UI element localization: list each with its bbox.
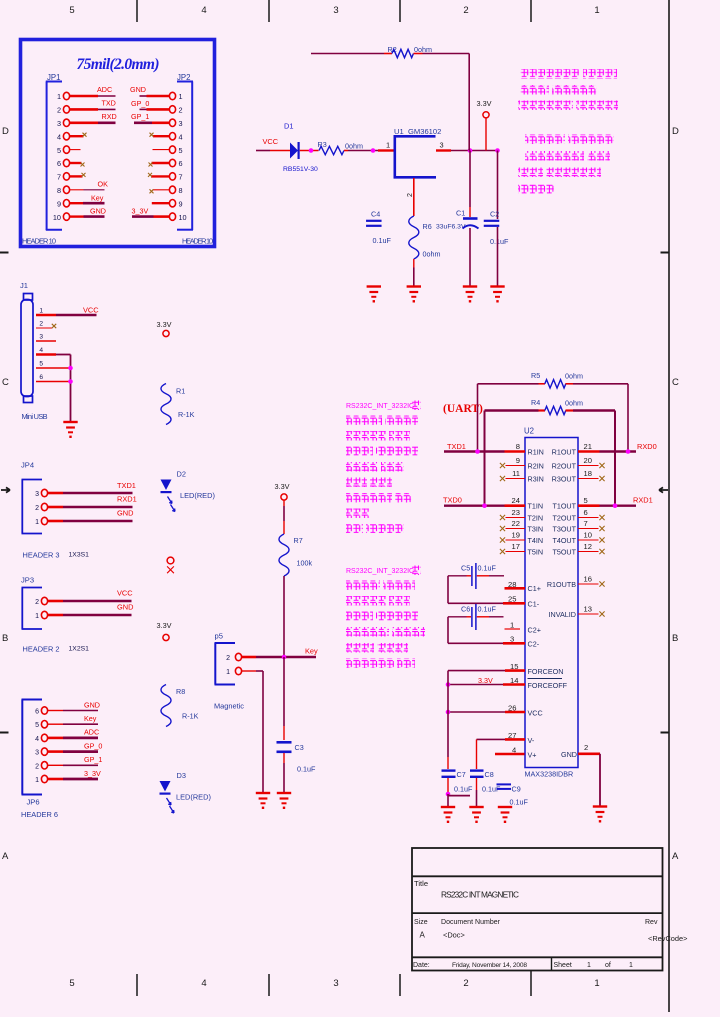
svg-text:D2: D2: [177, 470, 186, 479]
U1 pin2 wire down: [407, 178, 414, 216]
svg-text:2: 2: [35, 505, 39, 512]
svg-text:1: 1: [35, 613, 39, 620]
svg-text:C2-: C2-: [528, 640, 540, 649]
wire T1OUT to RXD1: [600, 496, 653, 506]
svg-text:C1-: C1-: [528, 600, 540, 609]
svg-text:GP_0: GP_0: [84, 741, 102, 750]
connector JP6 HEADER 6: [21, 700, 58, 820]
svg-text:GND: GND: [90, 207, 106, 216]
blue outline box 75mil: [21, 40, 215, 247]
svg-text:of: of: [605, 962, 611, 969]
svg-text:1: 1: [35, 519, 39, 526]
wire R4 left leg: [484, 411, 486, 506]
svg-text:GND: GND: [84, 700, 100, 709]
korean note block 2: [518, 135, 614, 194]
svg-text:8: 8: [57, 186, 61, 195]
power symbol 3.3V output: [477, 99, 492, 118]
svg-text:RS232C_INT_3232IC: RS232C_INT_3232IC: [346, 403, 414, 410]
svg-text:TXD0: TXD0: [443, 496, 462, 505]
resistor R8 R-1K: [161, 685, 199, 727]
svg-text:22: 22: [512, 519, 520, 528]
svg-text:5: 5: [179, 146, 183, 155]
capacitor C6 0.1uF: [448, 604, 504, 630]
JP3 pin wires: [48, 601, 132, 615]
svg-text:3: 3: [179, 119, 183, 128]
svg-text:4: 4: [57, 132, 61, 141]
svg-text:3: 3: [39, 334, 43, 341]
svg-text:24: 24: [512, 496, 520, 505]
svg-text:HEADER 10: HEADER 10: [22, 237, 56, 246]
svg-text:C1: C1: [456, 209, 465, 218]
svg-text:Date:: Date:: [413, 962, 430, 969]
U2 left no-connect marks: [500, 463, 505, 554]
off-page arrow left: [1, 487, 10, 492]
JP3 net labels: [117, 589, 133, 612]
wire R5 right leg: [627, 384, 629, 452]
JP6 net labels: [84, 700, 102, 778]
korean note block 3: [346, 416, 418, 534]
border zone letters right: [672, 126, 679, 862]
ground below C4: [367, 287, 381, 303]
svg-text:R5: R5: [531, 371, 540, 380]
svg-text:JP3: JP3: [21, 576, 34, 585]
wire C7 stub right: [448, 795, 470, 797]
junction RXD0: [626, 449, 631, 454]
svg-text:2: 2: [57, 106, 61, 115]
svg-text:D: D: [672, 126, 679, 137]
wire R3 to U1 pin1: [348, 150, 394, 152]
svg-text:3: 3: [35, 491, 39, 498]
svg-text:2: 2: [463, 5, 468, 16]
svg-text:U1: U1: [394, 127, 404, 136]
svg-text:RXD: RXD: [102, 112, 117, 121]
ground below J1: [63, 422, 77, 438]
svg-text:1: 1: [594, 5, 599, 16]
connector J1 Mini USB: [20, 281, 48, 421]
wire FORCEOFF 3.3V: [448, 676, 568, 690]
capacitor C8 0.1uF: [470, 739, 494, 806]
svg-text:7: 7: [584, 519, 588, 528]
svg-text:5: 5: [69, 978, 74, 989]
svg-text:2: 2: [39, 321, 43, 328]
svg-text:Sheet: Sheet: [554, 962, 572, 969]
J1 junction pin6: [68, 379, 73, 384]
svg-text:T4IN: T4IN: [528, 536, 544, 545]
svg-text:RS232C_INT_3232IC: RS232C_INT_3232IC: [346, 568, 414, 575]
svg-text:20: 20: [584, 456, 592, 465]
svg-text:R1: R1: [176, 387, 185, 396]
resistor R6 0ohm: [409, 216, 441, 286]
svg-text:23: 23: [512, 508, 520, 517]
svg-text:8: 8: [179, 186, 183, 195]
svg-text:4: 4: [201, 978, 206, 989]
svg-text:R4: R4: [531, 398, 540, 407]
resistor R5 0ohm uart: [478, 371, 629, 388]
svg-text:HEADER 10: HEADER 10: [182, 237, 213, 246]
svg-text:J1: J1: [20, 281, 28, 290]
svg-text:R2IN: R2IN: [528, 462, 544, 471]
off-page arrow right: [659, 487, 668, 492]
junction output C2: [495, 148, 500, 153]
wire 3.3V to R7: [283, 500, 285, 534]
svg-text:OK: OK: [98, 180, 109, 189]
svg-text:TXD: TXD: [102, 99, 116, 108]
svg-text:1: 1: [629, 962, 633, 969]
svg-text:B: B: [672, 633, 678, 644]
svg-text:R6: R6: [423, 222, 432, 231]
JP1 no-connect slashes: [81, 133, 87, 177]
svg-text:3.3V: 3.3V: [157, 320, 172, 329]
svg-text:V+: V+: [528, 751, 537, 760]
wire p5 pin2 to key node: [242, 656, 316, 659]
svg-text:MAX3238IDBR: MAX3238IDBR: [525, 770, 574, 779]
svg-text:3: 3: [510, 635, 514, 644]
ground below C2: [490, 287, 504, 303]
connector JP3 HEADER 2: [21, 576, 89, 654]
svg-text:Size: Size: [414, 919, 428, 926]
wire TXD0 to U2: [443, 496, 505, 506]
svg-text:U2: U2: [524, 427, 534, 436]
svg-text:4: 4: [201, 5, 206, 16]
JP1 net labels: [90, 85, 117, 216]
svg-text:C5: C5: [461, 564, 470, 573]
capacitor C1 33uF 6.3V: [436, 151, 479, 287]
svg-text:0.1uF: 0.1uF: [510, 798, 529, 807]
svg-text:1: 1: [179, 92, 183, 101]
resistor R7 100k: [279, 534, 313, 576]
title block texts: [413, 879, 687, 969]
svg-text:10: 10: [584, 531, 592, 540]
svg-text:1: 1: [587, 962, 591, 969]
svg-text:T3IN: T3IN: [528, 525, 544, 534]
svg-text:A: A: [420, 931, 426, 940]
svg-text:1X2S1: 1X2S1: [69, 646, 90, 653]
junction key node: [282, 655, 287, 660]
resistor R3 0ohm: [318, 140, 363, 155]
korean note block 4: [346, 581, 425, 669]
U2 pin1 stub: [505, 621, 541, 635]
svg-text:T3OUT: T3OUT: [552, 525, 576, 534]
svg-text:FORCEON: FORCEON: [528, 667, 564, 676]
svg-text:TXD1: TXD1: [117, 481, 136, 490]
junction below C7: [446, 792, 451, 797]
diode D1 RB551V-30: [283, 122, 318, 174]
svg-text:1: 1: [35, 777, 39, 784]
svg-text:LED(RED): LED(RED): [180, 491, 215, 500]
wire 3.3V stub: [485, 118, 487, 151]
border zone ticks bottom: [137, 971, 531, 996]
capacitor C9 0.1uF: [482, 784, 528, 806]
border zone numbers bottom: [69, 978, 599, 989]
svg-text:3_3V: 3_3V: [132, 207, 149, 216]
svg-text:5: 5: [584, 496, 588, 505]
svg-text:5: 5: [69, 5, 74, 16]
svg-text:Magnetic: Magnetic: [214, 702, 244, 711]
svg-text:8: 8: [516, 442, 520, 451]
svg-text:T1OUT: T1OUT: [552, 502, 576, 511]
svg-text:9: 9: [57, 199, 61, 208]
svg-text:25: 25: [508, 595, 516, 604]
svg-text:C7: C7: [457, 770, 466, 779]
svg-text:GND: GND: [117, 603, 133, 612]
svg-text:Key: Key: [84, 714, 97, 723]
svg-text:1: 1: [510, 621, 514, 630]
JP6 pin wires: [48, 711, 98, 780]
border zone ticks top: [137, 0, 531, 22]
svg-text:3: 3: [35, 750, 39, 757]
U2 pin3 label: [510, 635, 540, 649]
svg-text:6: 6: [39, 374, 43, 381]
ic U2 body: [524, 427, 578, 779]
LED D2: [161, 470, 215, 512]
JP4 pin wires: [48, 493, 133, 521]
JP2 no-connect slashes: [148, 133, 154, 194]
svg-text:T1IN: T1IN: [528, 502, 544, 511]
svg-text:D: D: [2, 126, 9, 137]
svg-text:3.3V: 3.3V: [478, 676, 493, 685]
svg-text:FORCEOFF: FORCEOFF: [528, 681, 568, 690]
junction before U1: [371, 148, 376, 153]
U2 pin25 label: [508, 595, 540, 609]
junction output C1: [468, 148, 473, 153]
svg-text:C: C: [672, 377, 679, 388]
svg-text:A: A: [672, 851, 679, 862]
ground below C1: [463, 287, 477, 303]
svg-text:18: 18: [584, 469, 592, 478]
border zone numbers top: [69, 5, 599, 16]
U2 left pins rows: [505, 442, 544, 557]
svg-text:RXD1: RXD1: [117, 495, 137, 504]
ground below p5: [256, 793, 270, 809]
wire R2 branch down: [468, 54, 470, 151]
junction TXD1: [475, 449, 480, 454]
svg-text:<Doc>: <Doc>: [443, 931, 465, 940]
svg-text:Mini USB: Mini USB: [22, 412, 48, 421]
wire V- pin27: [477, 731, 535, 745]
wire C6 bracket: [448, 617, 525, 644]
junction after diode: [309, 148, 314, 153]
svg-text:9: 9: [516, 456, 520, 465]
U2 right pins rows: [547, 442, 600, 619]
wire C5 bracket: [448, 576, 525, 604]
ground below C7: [441, 807, 455, 823]
svg-text:LED(RED): LED(RED): [176, 793, 211, 802]
regulator U1 GM36102: [386, 127, 451, 178]
svg-text:Key: Key: [91, 194, 104, 203]
JP1 pin wires: [70, 96, 116, 217]
svg-text:5: 5: [57, 146, 61, 155]
resistor R2 bypass 0ohm: [311, 45, 469, 58]
capacitor C7 0.1uF: [442, 770, 473, 794]
svg-text:C9: C9: [512, 785, 521, 794]
svg-text:1: 1: [57, 92, 61, 101]
svg-text:R3OUT: R3OUT: [552, 475, 577, 484]
svg-text:B: B: [2, 633, 8, 644]
svg-text:75mil(2.0mm): 75mil(2.0mm): [77, 56, 160, 73]
svg-text:2: 2: [463, 978, 468, 989]
power symbol 3.3V mid: [157, 621, 172, 641]
junction FORCEOFF: [446, 682, 451, 687]
power symbol 3.3V near J1: [157, 320, 172, 337]
svg-text:3_3V: 3_3V: [84, 769, 101, 778]
svg-text:Friday, November 14, 2008: Friday, November 14, 2008: [452, 962, 527, 969]
svg-text:T4OUT: T4OUT: [552, 536, 576, 545]
svg-text:C: C: [2, 377, 9, 388]
svg-text:10: 10: [53, 213, 61, 222]
svg-text:13: 13: [584, 605, 592, 614]
wire TXD1 to U2: [444, 442, 505, 452]
svg-text:R8: R8: [176, 687, 185, 696]
svg-text:GND: GND: [130, 85, 146, 94]
svg-text:5: 5: [35, 722, 39, 729]
korean note block 1: [518, 69, 618, 110]
svg-text:3: 3: [333, 978, 338, 989]
svg-text:R7: R7: [294, 536, 303, 545]
svg-text:16: 16: [584, 575, 592, 584]
svg-text:3.3V: 3.3V: [477, 99, 492, 108]
svg-text:10: 10: [179, 213, 187, 222]
sheet border right line: [668, 0, 670, 1012]
wire FORCEON: [448, 662, 563, 676]
svg-text:0.1uF: 0.1uF: [478, 605, 497, 614]
svg-text:Rev: Rev: [645, 919, 658, 926]
wire GND pin2: [561, 743, 600, 806]
svg-text:A: A: [2, 851, 9, 862]
border zone letters left: [2, 126, 9, 862]
svg-text:4: 4: [179, 132, 183, 141]
stub V+ pin4: [495, 746, 537, 760]
border zone ticks left: [0, 253, 9, 733]
svg-text:T5OUT: T5OUT: [552, 548, 576, 557]
svg-text:GM36102: GM36102: [408, 127, 441, 136]
svg-text:3.3V: 3.3V: [157, 621, 172, 630]
svg-text:HEADER 6: HEADER 6: [21, 810, 58, 819]
wire R7 to key junction: [283, 576, 285, 657]
svg-text:12: 12: [584, 542, 592, 551]
svg-text:GP_1: GP_1: [84, 755, 102, 764]
svg-text:0.1uF: 0.1uF: [454, 785, 473, 794]
border zone ticks right: [661, 253, 670, 733]
svg-text:R1OUTB: R1OUTB: [547, 580, 576, 589]
svg-text:RXD1: RXD1: [633, 496, 653, 505]
resistor R1 R-1K: [161, 384, 195, 425]
J1 junction pin5: [68, 366, 73, 371]
no-connect power symbol: [167, 557, 174, 573]
U2 pin28 stub: [505, 580, 541, 593]
svg-text:1: 1: [39, 308, 43, 315]
svg-text:7: 7: [57, 173, 61, 182]
svg-text:17: 17: [512, 542, 520, 551]
svg-text:GP_0: GP_0: [131, 99, 149, 108]
connector JP2: [169, 73, 193, 230]
JP2 net labels: [130, 85, 149, 216]
svg-text:2: 2: [226, 655, 230, 662]
svg-text:3: 3: [57, 119, 61, 128]
power symbol 3.3V key: [275, 482, 290, 500]
ground below C8: [469, 807, 483, 823]
ground below C3: [277, 793, 291, 809]
svg-text:ADC: ADC: [84, 728, 99, 737]
svg-text:Title: Title: [414, 879, 428, 888]
svg-text:2: 2: [35, 599, 39, 606]
svg-text:0ohm: 0ohm: [565, 372, 583, 381]
svg-text:HEADER 3: HEADER 3: [23, 551, 60, 560]
svg-text:C3: C3: [295, 743, 304, 752]
svg-text:R-1K: R-1K: [178, 410, 195, 419]
junction VCC: [446, 710, 451, 715]
svg-text:4: 4: [35, 736, 39, 743]
LED D3: [160, 771, 211, 813]
svg-text:4: 4: [39, 347, 43, 354]
svg-text:2: 2: [407, 193, 414, 197]
svg-text:5: 5: [39, 361, 43, 368]
svg-text:2: 2: [584, 743, 588, 752]
JP4 net labels: [117, 481, 137, 518]
svg-text:C2: C2: [490, 210, 499, 219]
svg-text:0ohm: 0ohm: [423, 250, 441, 259]
svg-text:0ohm: 0ohm: [565, 399, 583, 408]
svg-text:RXD0: RXD0: [637, 442, 657, 451]
svg-text:2: 2: [35, 763, 39, 770]
svg-text:GP_1: GP_1: [131, 112, 149, 121]
svg-text:6: 6: [179, 159, 183, 168]
capacitor C4 0.1uF: [366, 210, 391, 246]
wire R5 left leg: [477, 384, 479, 452]
svg-text:p5: p5: [215, 632, 223, 641]
svg-text:0ohm: 0ohm: [414, 45, 432, 54]
title block frame: [412, 848, 663, 971]
ground below U2 GND: [593, 807, 607, 823]
svg-text:R1IN: R1IN: [528, 448, 544, 457]
svg-text:0ohm: 0ohm: [345, 142, 363, 151]
svg-text:GND: GND: [561, 750, 577, 759]
capacitor C5 0.1uF: [448, 563, 504, 589]
svg-text:3.3V: 3.3V: [275, 482, 290, 491]
wire left rail to C7: [447, 671, 449, 769]
svg-text:R-1K: R-1K: [182, 712, 199, 721]
svg-text:1: 1: [226, 669, 230, 676]
svg-text:7: 7: [179, 173, 183, 182]
svg-text:6: 6: [35, 709, 39, 716]
svg-text:0.1uF: 0.1uF: [478, 564, 497, 573]
svg-text:T2OUT: T2OUT: [552, 514, 576, 523]
svg-text:3: 3: [333, 5, 338, 16]
svg-text:6: 6: [57, 159, 61, 168]
svg-text:VCC: VCC: [117, 589, 133, 598]
junction RXD1: [613, 503, 618, 508]
svg-text:1: 1: [594, 978, 599, 989]
svg-text:11: 11: [512, 469, 520, 478]
svg-text:R2OUT: R2OUT: [552, 462, 577, 471]
svg-text:1X3S1: 1X3S1: [69, 552, 90, 559]
svg-text:VCC: VCC: [528, 709, 543, 718]
svg-text:100k: 100k: [297, 559, 313, 568]
svg-text:0.1uF: 0.1uF: [297, 765, 316, 774]
svg-text:JP4: JP4: [21, 461, 34, 470]
connector JP4 HEADER 3: [21, 461, 89, 560]
svg-text:2: 2: [179, 106, 183, 115]
wire VCC pin26: [448, 704, 543, 718]
svg-text:TXD1: TXD1: [447, 442, 466, 451]
svg-text:0.1uF: 0.1uF: [490, 237, 509, 246]
JP2 pin wires: [132, 96, 169, 217]
capacitor C3 0.1uF: [277, 657, 316, 792]
svg-text:VCC: VCC: [263, 137, 279, 146]
svg-text:JP6: JP6: [27, 798, 40, 807]
svg-text:C8: C8: [485, 770, 494, 779]
wire R1OUT to RXD0: [600, 442, 657, 452]
J1 pin2 no-connect slash: [52, 324, 56, 328]
